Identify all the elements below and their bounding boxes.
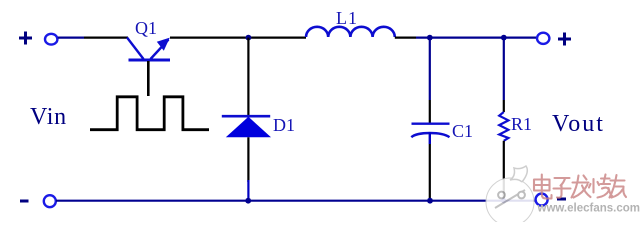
- watermark chinese text dian: [534, 175, 626, 199]
- input - terminal circle: [44, 195, 56, 207]
- capacitor C1 curved plate: [411, 133, 449, 137]
- watermark chinese text you: [610, 175, 627, 198]
- output - terminal circle: [536, 194, 548, 206]
- resistor R1: [499, 112, 508, 141]
- inductor L1: [306, 27, 395, 37]
- svg-text:R1: R1: [511, 114, 532, 134]
- wire (C1 bottom lead): [429, 133, 431, 145]
- wire (input + to Q1, black part): [84, 36, 128, 38]
- svg-text:D1: D1: [273, 115, 295, 135]
- plus sign (output positive terminal label): [558, 33, 571, 46]
- svg-text:Vin: Vin: [30, 104, 67, 130]
- svg-text:C1: C1: [452, 121, 473, 141]
- transistor Q1: [127, 38, 170, 61]
- input + terminal circle: [45, 34, 57, 45]
- svg-text:Vout: Vout: [552, 111, 605, 137]
- node (switch node junction dot): [246, 35, 252, 41]
- node (C1 top junction dot): [427, 35, 433, 41]
- node (R1 top junction dot): [501, 35, 507, 41]
- output + terminal circle: [537, 33, 549, 44]
- diode D1: [226, 117, 271, 138]
- capacitor C1 top plate: [412, 122, 450, 124]
- wire (Q1 base lead): [147, 61, 150, 96]
- svg-text:Q1: Q1: [135, 18, 157, 38]
- watermark chinese text shao: [589, 175, 613, 198]
- watermark chinese text zi: [554, 178, 571, 198]
- wire (switch node down to diode): [247, 38, 249, 115]
- wire (L1 to output, black part): [395, 36, 416, 38]
- wire (input + to Q1, blue part): [58, 36, 84, 38]
- wire (blue tail of diode lead): [247, 180, 249, 201]
- bottom rail wire: [56, 200, 535, 202]
- diode D1 cathode bar: [222, 115, 270, 118]
- node (diode bottom junction dot): [245, 198, 251, 204]
- pulse waveform (base drive signal): [90, 97, 209, 130]
- plus sign (input positive terminal label): [19, 32, 32, 45]
- wire (R1 top lead): [503, 38, 505, 100]
- wire (Q1 collector to L1): [170, 36, 306, 38]
- wire (R1 bottom lead): [503, 141, 505, 201]
- minus sign (input negative terminal label): [20, 200, 29, 203]
- node (C1 bottom junction dot): [427, 198, 433, 204]
- wire (L1 to output + terminal, navy part): [416, 36, 537, 38]
- wire (C1 top lead): [429, 38, 431, 100]
- watermark chinese text fa: [572, 176, 591, 198]
- wire (diode anode down to bottom rail): [247, 137, 249, 182]
- minus sign (output negative terminal label): [557, 198, 566, 201]
- svg-text:L1: L1: [336, 8, 358, 28]
- svg-text:www.elecfans.com: www.elecfans.com: [537, 203, 640, 215]
- watermark logo circle: [486, 166, 534, 226]
- transistor Q1 emitter arrow head: [157, 38, 170, 51]
- node (R1 bottom junction dot): [501, 198, 506, 203]
